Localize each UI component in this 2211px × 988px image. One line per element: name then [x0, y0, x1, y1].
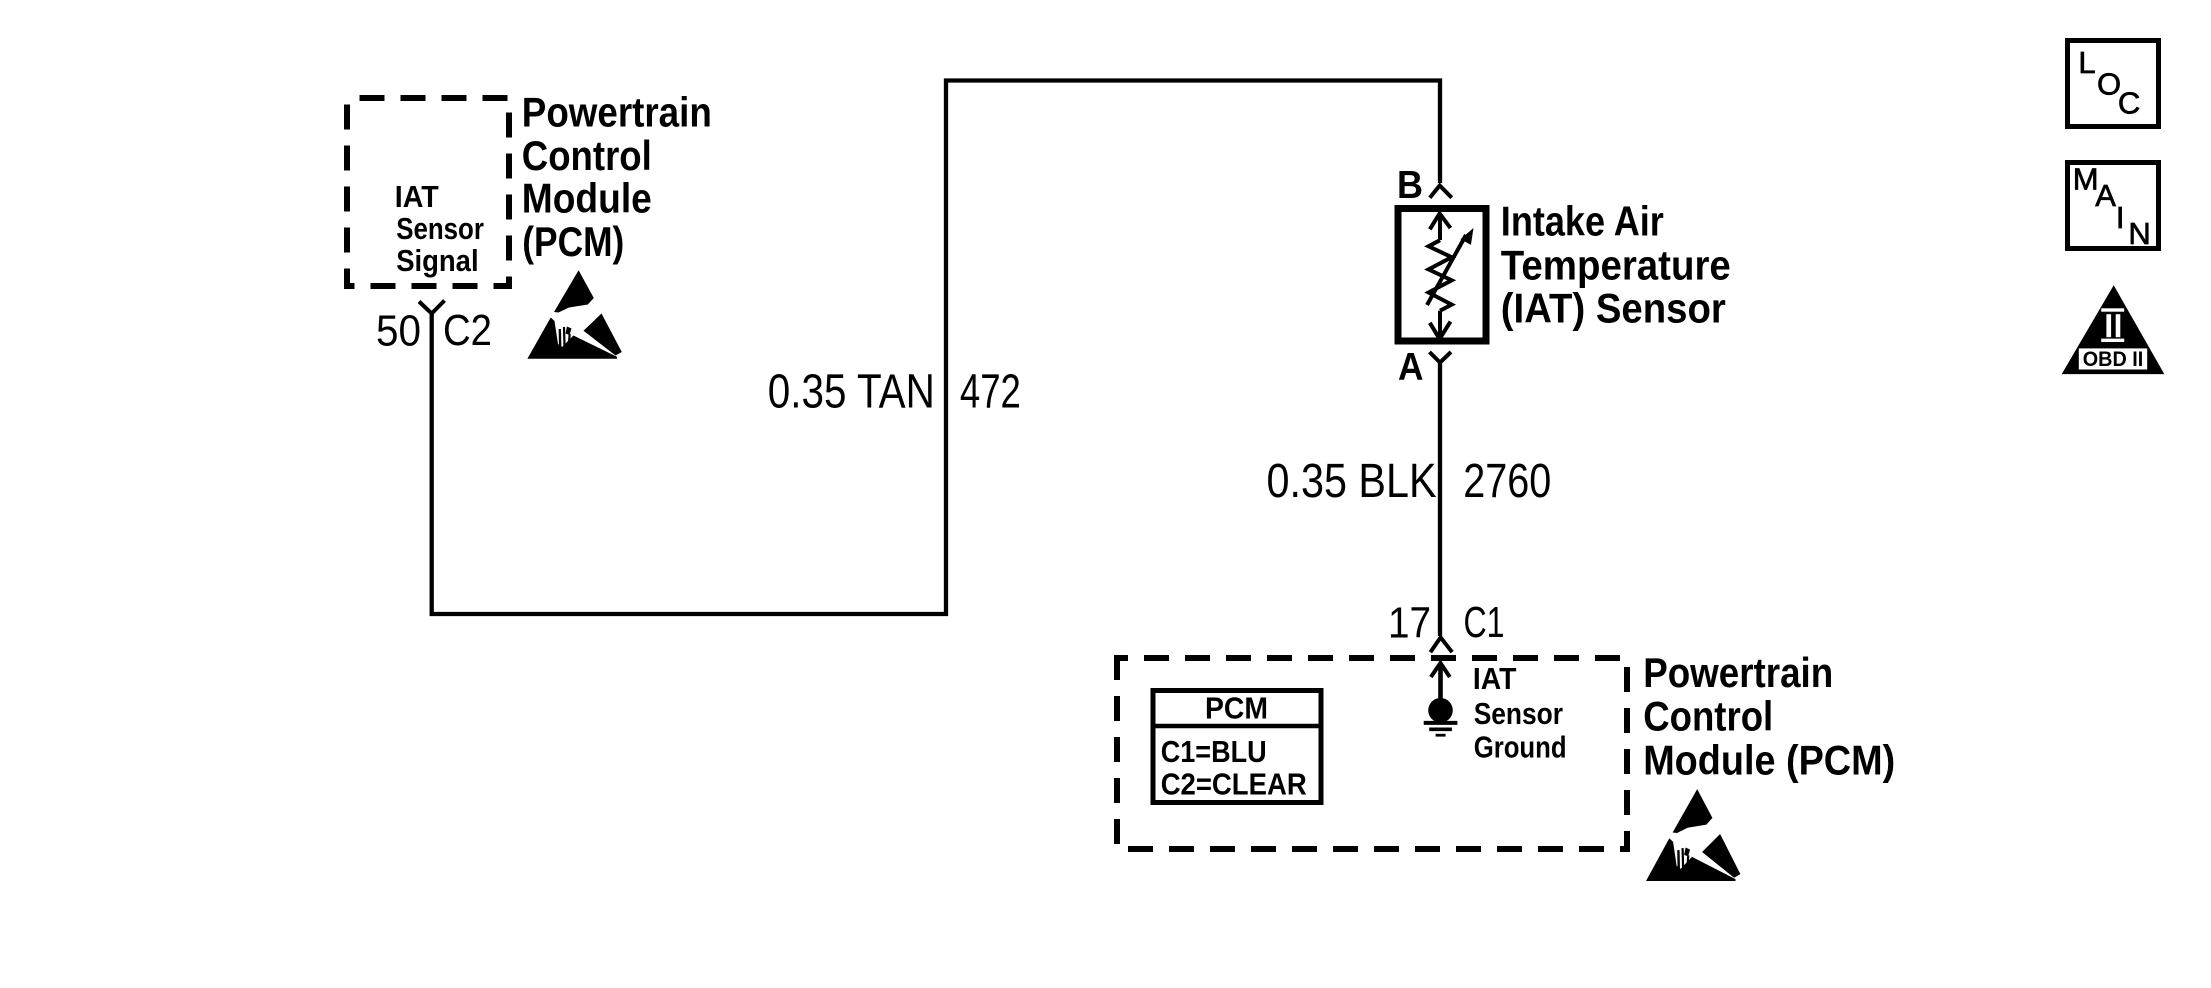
LOC reference box	[2068, 41, 2159, 127]
svg-text:(PCM): (PCM)	[522, 218, 624, 265]
svg-text:0.35 BLK: 0.35 BLK	[1267, 455, 1437, 508]
svg-text:B: B	[1397, 164, 1423, 207]
svg-text:A: A	[1398, 346, 1424, 389]
svg-text:0.35 TAN: 0.35 TAN	[768, 366, 935, 419]
svg-text:Intake Air: Intake Air	[1501, 197, 1664, 244]
ground arrow to PCM	[1438, 665, 1443, 699]
svg-text:Powertrain: Powertrain	[1643, 649, 1833, 696]
svg-text:Temperature: Temperature	[1501, 241, 1731, 288]
connector C2 pin 50 (Y symbol)	[419, 301, 445, 314]
svg-text:L: L	[2078, 45, 2095, 80]
svg-text:2760: 2760	[1463, 455, 1551, 508]
IAT sensor box	[1398, 209, 1486, 342]
svg-text:Module (PCM): Module (PCM)	[1643, 737, 1895, 784]
PCM module dashed box (bottom)	[1117, 658, 1627, 849]
svg-text:50: 50	[376, 307, 421, 356]
svg-text:C1: C1	[1464, 598, 1505, 647]
ESD symbol bottom-right	[1646, 789, 1740, 881]
svg-text:472: 472	[960, 366, 1021, 419]
connector B chevron	[1430, 186, 1452, 198]
PCM module dashed box (IAT Sensor Signal)	[347, 98, 509, 286]
svg-text:Control: Control	[1643, 693, 1773, 740]
svg-text:Sensor: Sensor	[396, 212, 484, 246]
MAIN reference box	[2068, 163, 2159, 249]
svg-text:Signal: Signal	[396, 244, 478, 278]
ground symbol: IAT Sensor Ground	[1428, 698, 1453, 723]
svg-text:C2: C2	[443, 306, 492, 355]
thermistor symbol inside IAT sensor	[1427, 214, 1466, 339]
svg-text:Module: Module	[522, 175, 652, 222]
svg-text:IAT: IAT	[395, 180, 439, 214]
svg-text:IAT: IAT	[1473, 662, 1517, 696]
PCM table divider	[1151, 724, 1324, 729]
svg-text:Sensor: Sensor	[1474, 697, 1563, 731]
PCM connector table box	[1153, 691, 1321, 803]
ESD symbol top-left	[527, 270, 621, 358]
svg-text:C: C	[2118, 86, 2140, 121]
svg-text:Ground: Ground	[1474, 731, 1567, 765]
OBD II triangle symbol	[2062, 285, 2165, 374]
connector A (Y symbol)	[1430, 352, 1452, 363]
wire: IAT ground 0.35 BLK 2760	[1438, 363, 1442, 637]
svg-text:OBD II: OBD II	[2083, 347, 2144, 371]
svg-text:I: I	[2116, 200, 2125, 235]
wire: IAT signal 0.35 TAN 472	[432, 81, 1440, 615]
svg-text:Powertrain: Powertrain	[522, 89, 712, 136]
svg-text:N: N	[2128, 216, 2150, 251]
svg-text:PCM: PCM	[1205, 692, 1268, 726]
svg-text:(IAT) Sensor: (IAT) Sensor	[1501, 285, 1726, 332]
svg-text:C1=BLU: C1=BLU	[1161, 735, 1267, 769]
svg-text:A: A	[2095, 178, 2116, 213]
svg-text:Control: Control	[522, 132, 652, 179]
connector C1 pin 17 chevron	[1430, 637, 1452, 652]
svg-text:17: 17	[1388, 598, 1431, 647]
svg-text:C2=CLEAR: C2=CLEAR	[1161, 768, 1307, 802]
